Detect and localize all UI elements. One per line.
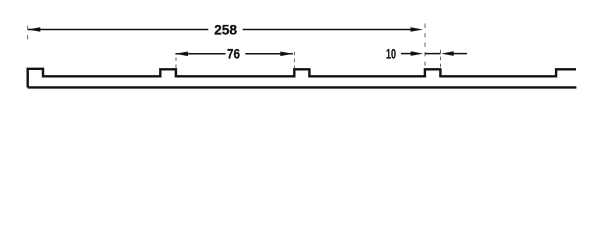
dimension 258 line left segment [28, 29, 209, 31]
profile top outline with edge lip and ribs [28, 69, 576, 88]
arrowhead 76 right [280, 52, 293, 57]
arrowhead 76 left [175, 52, 188, 57]
arrowhead 10 right (points left at x=440.5) [441, 51, 454, 56]
arrowhead 258 right [411, 27, 424, 32]
svg-text:258: 258 [214, 21, 237, 37]
extension line at rib1 right edge (x=176) [175, 57, 177, 68]
svg-text:76: 76 [227, 46, 240, 62]
arrowhead 10 left (points right at x=425) [411, 51, 424, 56]
dimension 258 line right segment [243, 29, 411, 31]
dimension 76 line right segment [245, 53, 292, 55]
extension line at profile left edge (x=29) [27, 26, 29, 41]
arrowhead 258 left [28, 27, 41, 32]
dimension 10 middle segment between extension lines [425, 53, 441, 55]
dimension 10 right leader line [452, 53, 467, 55]
profile bottom surface line [28, 86, 577, 88]
extension line at rib2 left edge (x=294.5) [293, 52, 295, 69]
extension line at rib3 left edge (x=425.4) [424, 24, 426, 69]
dimension 10 left leader line [401, 53, 413, 55]
dimension 76 line left segment [175, 53, 225, 55]
extension line at rib3 right edge (x=440.6) [440, 50, 442, 69]
svg-text:10: 10 [386, 46, 396, 62]
